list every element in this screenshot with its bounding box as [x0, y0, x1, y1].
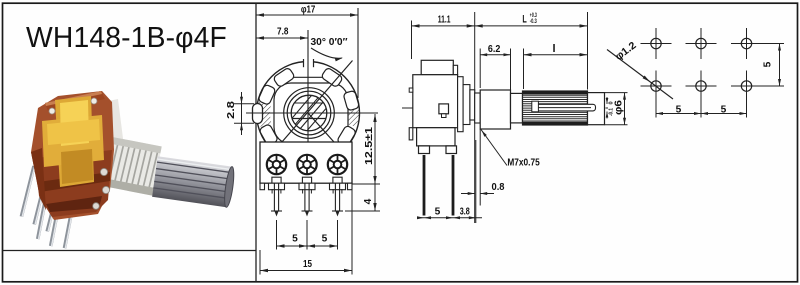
svg-text:7.8: 7.8	[277, 27, 289, 38]
dimension 0.8	[461, 193, 475, 195]
cell divider vertical	[255, 3, 257, 282]
svg-text:+0.3: +0.3	[530, 13, 537, 19]
side view: cover plate 1	[458, 77, 464, 132]
dimension phi17	[256, 14, 358, 16]
svg-text:30° 0′0″: 30° 0′0″	[311, 37, 348, 48]
front view: cover window at 16 deg	[343, 90, 359, 111]
side view: body foot left	[419, 146, 430, 154]
front view: cover window at 209 deg	[259, 124, 279, 146]
dimension L with tolerance	[587, 12, 589, 90]
side view: body top block	[421, 60, 453, 74]
hole pattern: dimension 5 horizontal	[655, 92, 657, 118]
svg-text:5: 5	[763, 61, 774, 67]
photo: side rivets	[100, 168, 107, 175]
front view: bottom foot	[330, 183, 346, 190]
front view: hatched section east	[345, 99, 359, 127]
front view: shaft middle circle	[287, 91, 331, 135]
svg-text:-0.3: -0.3	[530, 19, 537, 25]
svg-text:0: 0	[609, 101, 615, 104]
front view: solder pin	[304, 183, 306, 211]
front view: outer cover circle	[257, 62, 360, 165]
side view: cover plate 3	[470, 90, 475, 120]
front view: shaft knurl circle	[291, 95, 327, 131]
front view: top notch	[304, 57, 314, 68]
dimension 11.1	[411, 21, 413, 60]
svg-text:15: 15	[303, 259, 312, 270]
front view: terminal eyelet	[267, 155, 286, 174]
front view: terminal boss	[272, 177, 281, 183]
svg-text:12.5±1: 12.5±1	[364, 127, 375, 165]
side view: cover plate 2	[463, 85, 470, 125]
front view: cover window at 56 deg	[321, 67, 343, 88]
hole pattern: pcb hole	[651, 81, 661, 91]
photo: terminal pins	[21, 166, 34, 217]
front view: cover window at -31 deg	[337, 125, 357, 147]
svg-text:-0.1: -0.1	[609, 108, 615, 116]
side view: screwdriver slot	[534, 104, 596, 111]
front view: solder pin	[334, 183, 336, 211]
dimension 2.8	[234, 103, 254, 105]
side view: body top tab	[453, 65, 457, 74]
dimension 12.5+-1	[374, 114, 376, 184]
svg-text:5: 5	[676, 105, 682, 116]
front view: terminal eyelet	[328, 155, 347, 174]
hole pattern: pcb hole	[651, 38, 661, 48]
photo: rivet top-right	[91, 98, 97, 104]
front view: horizontal centerline	[246, 112, 378, 114]
photo: body lower dark section	[35, 150, 112, 217]
side view: bushing base extension line	[479, 129, 481, 206]
photo: potentiometer body rear housing	[31, 91, 114, 220]
dimension phi6 shaft diameter	[605, 92, 628, 94]
dimension 7.8	[256, 37, 308, 39]
front view: cover window at 124 deg	[273, 67, 295, 88]
label M7x0.75 with leader	[481, 130, 507, 166]
svg-text:φ6: φ6	[614, 100, 625, 115]
side view: slot left marker	[532, 101, 539, 112]
hole pattern: pcb hole	[741, 38, 751, 48]
dimension 5 5 under pins	[276, 220, 278, 250]
svg-text:5: 5	[721, 105, 727, 116]
side view: shaft tip	[588, 93, 605, 125]
photo: top bevel strip	[45, 91, 105, 111]
hole pattern: dimension 5 vertical	[762, 43, 784, 45]
front view: cover window at 156 deg	[258, 84, 276, 105]
dimension 4	[374, 184, 376, 211]
side view: body main block	[413, 75, 458, 128]
front view: bottom foot	[260, 183, 265, 190]
svg-text:5: 5	[292, 234, 298, 245]
side view: body lower block	[417, 128, 455, 146]
side view: pin front	[423, 155, 426, 216]
photo: gold cross highlight	[60, 100, 89, 146]
front view: vertical centerline	[307, 30, 309, 142]
front view: terminal eyelet	[297, 155, 316, 174]
side view: centerline	[402, 107, 608, 109]
side view: mounting face extension line	[474, 12, 476, 223]
side view: pin rear	[452, 155, 455, 216]
photo: rivet top-left	[49, 108, 55, 114]
dimension 15	[259, 250, 261, 275]
front view: dim phi17 extension left (full height)	[255, 3, 257, 282]
svg-text:5: 5	[322, 234, 328, 245]
front view: anti-rotation tab	[253, 104, 263, 124]
side view: knurled shaft section	[523, 91, 588, 125]
side view: center square	[439, 104, 449, 114]
svg-text:2.8: 2.8	[226, 101, 237, 119]
side view: threaded bushing	[480, 90, 510, 129]
photo: gold front cross horizontal arm	[42, 115, 104, 167]
svg-text:L: L	[522, 13, 527, 25]
dimension 6.2	[479, 49, 481, 89]
front view: bottom foot	[299, 183, 315, 190]
side view: shaft neck	[511, 93, 523, 123]
front view: lower-right pointer line	[308, 113, 342, 151]
dimension l knurl length	[523, 49, 525, 90]
svg-text:M7x0.75: M7x0.75	[507, 157, 540, 168]
side view: body left tab	[409, 128, 413, 140]
front view: bottom foot	[269, 183, 285, 190]
svg-text:5: 5	[435, 206, 441, 217]
hole pattern: pcb hole	[696, 38, 706, 48]
side view: body left notch	[409, 88, 413, 92]
side view: body foot right	[446, 146, 457, 154]
svg-text:6.2: 6.2	[488, 44, 501, 55]
photo: gold front cross vertical arm	[55, 96, 94, 187]
dimension 5 and 3.8 pin spacing	[475, 140, 477, 223]
front view: hatched section west	[257, 99, 271, 127]
svg-text:l: l	[552, 43, 555, 55]
front view: 30deg pointer line	[275, 61, 353, 151]
hole pattern: phi1.2 leader	[607, 50, 673, 100]
front view: shaft knurl lines	[289, 92, 330, 135]
photo: threaded bushing	[95, 135, 161, 195]
front view: terminal boss	[302, 177, 311, 183]
photo: white collar behind bushing	[94, 99, 126, 168]
photo: gold cross lower shade	[61, 149, 93, 184]
front view: rotor rounded square	[274, 83, 348, 144]
front view: bottom foot	[348, 183, 353, 190]
cell divider under photo	[3, 250, 257, 252]
front view: body rectangle	[260, 142, 352, 183]
side view: bushing base washer	[475, 93, 481, 123]
svg-text:φ17: φ17	[301, 4, 316, 15]
front view: terminal boss	[333, 177, 342, 183]
svg-text:0.8: 0.8	[492, 182, 505, 193]
hole pattern: pcb hole	[741, 81, 751, 91]
hole pattern: pcb hole	[696, 81, 706, 91]
photo: body dark seams	[38, 172, 110, 192]
front view: solder pin	[273, 183, 275, 211]
svg-text:WH148-1B-φ4F: WH148-1B-φ4F	[26, 21, 227, 53]
svg-text:4: 4	[363, 198, 374, 204]
front view: shaft outer circle	[284, 88, 335, 139]
svg-text:11.1: 11.1	[438, 14, 451, 25]
svg-text:3.8: 3.8	[460, 206, 470, 217]
front view: cover top chord	[291, 76, 325, 78]
